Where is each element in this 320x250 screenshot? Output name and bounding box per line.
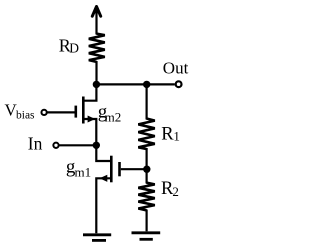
- svg-text:R: R: [161, 125, 174, 145]
- svg-text:m2: m2: [105, 109, 122, 124]
- svg-text:D: D: [69, 41, 79, 56]
- svg-text:Out: Out: [163, 59, 189, 78]
- svg-text:2: 2: [172, 184, 179, 199]
- svg-text:m1: m1: [75, 165, 92, 180]
- svg-text:bias: bias: [16, 109, 35, 121]
- svg-text:1: 1: [173, 128, 180, 143]
- svg-text:In: In: [28, 134, 43, 154]
